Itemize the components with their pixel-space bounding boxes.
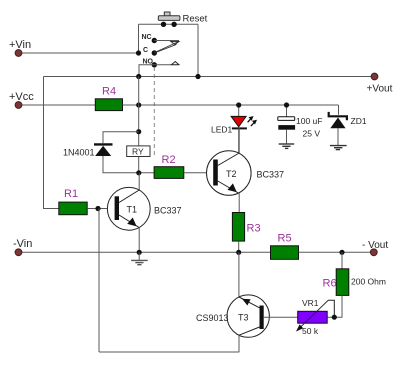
node LED junction xyxy=(236,102,241,107)
wire diode bottom branch xyxy=(103,156,154,173)
wire feedback drop xyxy=(98,209,100,353)
resistor R3 xyxy=(232,213,260,242)
node diode bottom / T1 collector junction xyxy=(136,170,141,175)
transistor T3 CS9013 xyxy=(196,295,269,352)
wire rail down through RY coil xyxy=(138,77,140,146)
svg-text:CS9013: CS9013 xyxy=(196,313,229,323)
svg-text:LED1: LED1 xyxy=(211,125,233,135)
capacitor C1 100uF xyxy=(278,105,323,144)
potentiometer VR1 xyxy=(296,298,334,336)
wire R6 to VR1 node xyxy=(327,295,342,317)
wire contact-box left vertical xyxy=(138,24,140,53)
svg-text:T2: T2 xyxy=(226,169,237,179)
wire R1 to T1 base xyxy=(87,208,114,210)
ground at T1 emitter xyxy=(131,252,148,264)
svg-text:100 uF: 100 uF xyxy=(296,116,322,126)
node R1/base junction xyxy=(95,206,100,211)
svg-text:VR1: VR1 xyxy=(302,298,319,308)
svg-text:+Vout: +Vout xyxy=(367,84,393,95)
wire bottom return xyxy=(99,351,239,353)
svg-text:BC337: BC337 xyxy=(257,170,285,180)
resistor R5 xyxy=(271,233,299,260)
zener diode ZD1 xyxy=(329,105,367,146)
svg-text:-Vin: -Vin xyxy=(13,238,32,250)
node +Vout terminal xyxy=(367,73,393,94)
svg-text:Reset: Reset xyxy=(183,14,208,25)
pushbutton Reset xyxy=(158,12,207,27)
svg-text:+Vcc: +Vcc xyxy=(9,91,34,103)
relay contact C blade xyxy=(143,42,178,56)
wire T3 vertical from rail xyxy=(238,252,240,297)
wire R3 to rail xyxy=(238,241,240,252)
svg-text:R5: R5 xyxy=(278,233,292,245)
wire R2 to T2 base xyxy=(184,172,214,174)
wire +Vin to contact C xyxy=(19,52,139,54)
wire +Vcc line R4 to zener xyxy=(123,104,339,106)
resistor R6 xyxy=(323,269,386,296)
wire diode top branch xyxy=(103,132,139,143)
svg-text:- Vout: - Vout xyxy=(362,240,388,251)
wire rail to R6 xyxy=(341,252,343,268)
transistor T2 BC337 xyxy=(207,128,285,212)
ground under capacitor xyxy=(279,144,295,148)
wire T3 base to VR1 xyxy=(264,316,298,318)
node R3/T3 rail junction xyxy=(236,250,241,255)
svg-text:200 Ohm: 200 Ohm xyxy=(351,277,386,287)
svg-text:R6: R6 xyxy=(323,278,337,290)
node -Vout terminal xyxy=(362,240,388,256)
resistor R2 xyxy=(154,154,184,178)
wire +Vcc to R4 xyxy=(19,104,96,106)
svg-text:+Vin: +Vin xyxy=(9,39,31,51)
wire R5 to -Vout xyxy=(299,251,374,253)
node diode top junction xyxy=(136,129,141,134)
node rail/RY junction xyxy=(136,74,141,79)
dashed relay actuation link xyxy=(153,67,155,157)
relay contact NO xyxy=(143,59,180,68)
ground under zener xyxy=(330,146,347,150)
LED1 xyxy=(211,105,257,153)
svg-text:ZD1: ZD1 xyxy=(351,116,367,126)
diode D1 1N4001 xyxy=(63,144,113,157)
svg-text:R4: R4 xyxy=(102,86,116,98)
resistor R4 xyxy=(95,86,122,111)
node capacitor junction xyxy=(284,102,289,107)
svg-text:T3: T3 xyxy=(238,313,249,323)
svg-text:BC337: BC337 xyxy=(154,206,182,216)
node +Vcc terminal xyxy=(9,91,34,108)
wire NO drop to +Vout rail xyxy=(139,65,154,77)
node rail/reset junction xyxy=(195,74,200,79)
svg-text:R3: R3 xyxy=(247,223,261,235)
svg-text:R1: R1 xyxy=(64,188,78,200)
svg-text:C: C xyxy=(143,47,148,54)
svg-text:1N4001: 1N4001 xyxy=(63,148,95,158)
svg-text:50 k: 50 k xyxy=(302,326,319,336)
node C junction with +Vin xyxy=(136,50,141,55)
node T1 emitter/ground junction xyxy=(137,250,142,255)
wire left vertical rail to R1 xyxy=(44,77,59,209)
svg-text:T1: T1 xyxy=(127,205,138,215)
transistor T1 BC337 xyxy=(107,173,181,253)
node R6 rail junction xyxy=(339,250,344,255)
resistor R1 xyxy=(59,188,87,215)
relay coil RY xyxy=(127,146,150,157)
svg-text:RY: RY xyxy=(132,146,144,156)
node VR1 wiper junction xyxy=(332,315,337,320)
relay contact NC xyxy=(142,34,180,45)
svg-text:NC: NC xyxy=(142,34,152,41)
wire contact-box right vertical xyxy=(197,24,199,76)
wire contact-box top xyxy=(139,23,199,25)
wire -Vin rail xyxy=(19,251,271,253)
node +Vin terminal xyxy=(9,39,31,56)
node -Vin terminal xyxy=(13,238,32,256)
wire +Vout rail xyxy=(44,76,375,78)
svg-text:25 V: 25 V xyxy=(303,129,321,139)
svg-text:R2: R2 xyxy=(162,154,176,166)
node R4 right junction xyxy=(136,102,141,107)
